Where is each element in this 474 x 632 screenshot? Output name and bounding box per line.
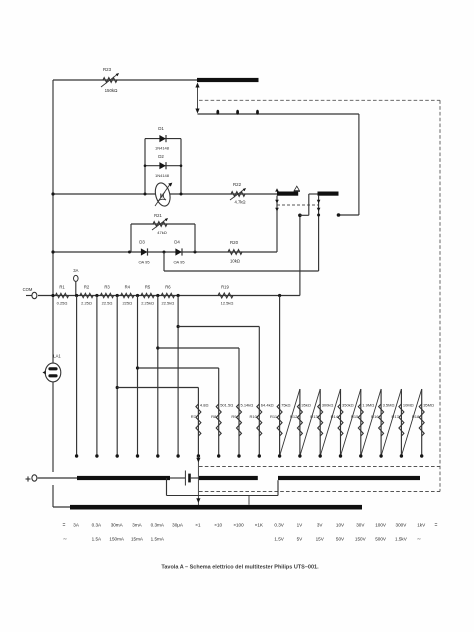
svg-text:150mA: 150mA — [109, 537, 124, 542]
svg-text:R11: R11 — [270, 414, 278, 419]
svg-text:R1: R1 — [59, 285, 65, 290]
svg-text:×100: ×100 — [233, 523, 244, 528]
svg-text:∼: ∼ — [417, 537, 421, 543]
svg-text:350kΩ: 350kΩ — [342, 403, 354, 408]
svg-text:0.25Ω: 0.25Ω — [57, 301, 68, 306]
svg-text:×1: ×1 — [195, 523, 201, 528]
svg-text:R20: R20 — [230, 240, 239, 245]
svg-text:D4: D4 — [174, 240, 180, 245]
svg-text:OA 95: OA 95 — [138, 260, 150, 265]
svg-text:10V: 10V — [336, 523, 345, 528]
svg-text:501.5Ω: 501.5Ω — [220, 403, 233, 408]
svg-text:=: = — [63, 523, 66, 529]
svg-text:4.8Ω: 4.8Ω — [200, 403, 209, 408]
svg-text:=: = — [435, 523, 438, 529]
svg-text:5V: 5V — [297, 537, 304, 542]
svg-text:2.25Ω: 2.25Ω — [81, 301, 92, 306]
svg-text:LA1: LA1 — [53, 354, 61, 359]
svg-text:3mA: 3mA — [132, 523, 142, 528]
svg-text:0.3A: 0.3A — [92, 523, 102, 528]
svg-text:15mA: 15mA — [131, 537, 144, 542]
svg-text:3A: 3A — [73, 523, 80, 528]
svg-text:4.7kΩ: 4.7kΩ — [234, 200, 245, 205]
svg-text:50V: 50V — [336, 537, 345, 542]
svg-text:15V: 15V — [316, 537, 325, 542]
svg-text:0.3mA: 0.3mA — [151, 523, 165, 528]
svg-text:22.5Ω: 22.5Ω — [102, 301, 113, 306]
svg-text:300kΩ: 300kΩ — [322, 403, 334, 408]
svg-text:×1K: ×1K — [255, 523, 264, 528]
svg-text:35kΩ: 35kΩ — [301, 403, 310, 408]
svg-text:COM: COM — [23, 287, 33, 292]
svg-text:3A: 3A — [73, 268, 78, 273]
svg-text:1kV: 1kV — [417, 523, 426, 528]
svg-text:R9: R9 — [231, 414, 237, 419]
svg-text:D1: D1 — [158, 126, 164, 131]
svg-text:64.4kΩ: 64.4kΩ — [261, 403, 274, 408]
svg-text:100V: 100V — [375, 523, 387, 528]
svg-text:R4: R4 — [125, 285, 131, 290]
svg-text:OA 95: OA 95 — [173, 260, 185, 265]
svg-text:10kΩ: 10kΩ — [230, 259, 240, 264]
svg-text:R6: R6 — [165, 285, 171, 290]
svg-text:12.5kΩ: 12.5kΩ — [221, 301, 234, 306]
svg-text:R21: R21 — [154, 213, 162, 218]
svg-text:R19: R19 — [221, 285, 229, 290]
svg-text:1V: 1V — [297, 523, 304, 528]
svg-text:30μA: 30μA — [172, 523, 184, 528]
svg-text:10MΩ: 10MΩ — [403, 403, 414, 408]
svg-text:R7: R7 — [191, 414, 197, 419]
svg-text:500V: 500V — [375, 537, 387, 542]
svg-text:35MΩ: 35MΩ — [423, 403, 434, 408]
svg-text:D3: D3 — [139, 240, 145, 245]
svg-text:150V: 150V — [355, 537, 367, 542]
svg-text:R10: R10 — [249, 414, 257, 419]
svg-text:1.5V: 1.5V — [274, 537, 284, 542]
svg-text:75kΩ: 75kΩ — [281, 403, 290, 408]
svg-text:225Ω: 225Ω — [122, 301, 132, 306]
svg-text:∼: ∼ — [63, 537, 67, 543]
svg-text:1N4148: 1N4148 — [155, 173, 170, 178]
svg-text:Tavola A – Schema elettrico de: Tavola A – Schema elettrico del multites… — [161, 565, 319, 571]
svg-text:R23: R23 — [103, 67, 112, 72]
svg-text:R8: R8 — [211, 414, 217, 419]
svg-text:R2: R2 — [84, 285, 90, 290]
svg-text:5.14kΩ: 5.14kΩ — [241, 403, 254, 408]
svg-text:R22: R22 — [233, 182, 242, 187]
svg-text:2.25kΩ: 2.25kΩ — [141, 301, 154, 306]
svg-text:3.5MΩ: 3.5MΩ — [383, 403, 395, 408]
svg-text:D2: D2 — [158, 154, 164, 159]
svg-text:300V: 300V — [396, 523, 408, 528]
svg-text:1.5A: 1.5A — [92, 537, 102, 542]
svg-text:150kΩ: 150kΩ — [105, 88, 119, 93]
svg-text:1.5mA: 1.5mA — [151, 537, 165, 542]
svg-text:1.5kV: 1.5kV — [395, 537, 408, 542]
svg-text:30mA: 30mA — [111, 523, 124, 528]
svg-text:×10: ×10 — [214, 523, 222, 528]
svg-text:22.5kΩ: 22.5kΩ — [162, 301, 175, 306]
svg-text:0.3V: 0.3V — [274, 523, 284, 528]
svg-text:R3: R3 — [104, 285, 110, 290]
svg-text:3V: 3V — [317, 523, 324, 528]
svg-text:1N4148: 1N4148 — [155, 146, 170, 151]
svg-text:R5: R5 — [145, 285, 151, 290]
svg-text:47kΩ: 47kΩ — [157, 230, 166, 235]
svg-text:30V: 30V — [356, 523, 365, 528]
svg-text:1.9MΩ: 1.9MΩ — [362, 403, 374, 408]
